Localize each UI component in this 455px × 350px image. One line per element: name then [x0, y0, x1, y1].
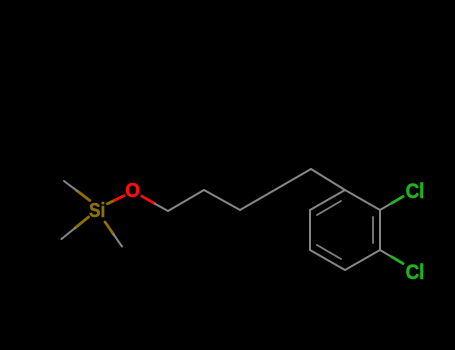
- bond O-C1 red half: [142, 196, 155, 204]
- svg-text:Cl: Cl: [406, 260, 425, 284]
- benzene inner double bond line C3r=C4r: [372, 217, 374, 243]
- svg-text:O: O: [125, 179, 140, 202]
- benzene inner double bond line C5r=C6r: [317, 245, 341, 259]
- bond C4r-Cl2 gray half: [380, 250, 392, 257]
- benzene ring edge C6r-C1r: [309, 210, 311, 250]
- benzene ring edge C5r-C6r: [310, 250, 345, 270]
- silyl methyl bond m1 olive half: [77, 191, 90, 201]
- wire: chain bond C1-C2: [168, 190, 204, 211]
- silyl methyl bond m2 gray half: [62, 228, 76, 239]
- svg-text:Cl: Cl: [406, 179, 425, 203]
- benzene ring edge ipso-C3r: [345, 190, 380, 210]
- bond C3r-Cl1 green half: [392, 197, 404, 204]
- benzene ring edge C1r-ipso: [310, 190, 345, 210]
- wire: benzylic bond C5-ring ipso: [311, 169, 345, 190]
- bond C3r-Cl1 gray half: [380, 203, 392, 210]
- bond Si-O olive half: [107, 200, 114, 204]
- benzene ring edge C3r-C4r: [379, 210, 381, 250]
- wire: chain bond C3-C4-C5 straight run: [240, 169, 311, 210]
- benzene inner double bond line C1r=C2r: [317, 201, 341, 215]
- silyl methyl bond m3 gray half: [114, 234, 123, 246]
- silyl methyl bond m1 gray half: [64, 181, 77, 191]
- bond Si-O red half: [115, 196, 124, 201]
- silyl methyl bond m3 olive half: [105, 222, 114, 234]
- wire: chain bond C2-C3: [204, 190, 240, 210]
- benzene ring edge C4r-C5r: [345, 250, 380, 270]
- svg-text:Si: Si: [89, 199, 105, 222]
- bond C4r-Cl2 green half: [392, 257, 404, 264]
- silyl methyl bond m2 olive half: [75, 217, 89, 228]
- bond O-C1 gray half: [155, 204, 168, 211]
